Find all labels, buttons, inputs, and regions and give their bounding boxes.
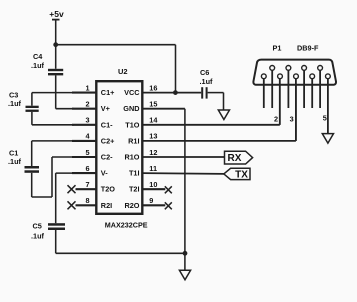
svg-text:2: 2 <box>86 100 90 109</box>
svg-text:VCC: VCC <box>124 88 140 97</box>
svg-text:V+: V+ <box>101 104 110 113</box>
junction dot C (ground rail) <box>183 251 188 256</box>
capacitor C5 <box>31 222 65 254</box>
svg-text:6: 6 <box>86 164 90 173</box>
wire pin 4 to C1 <box>32 140 74 142</box>
svg-text:C1+: C1+ <box>101 88 115 97</box>
pin 5 stub <box>72 156 97 158</box>
svg-text:15: 15 <box>149 100 157 109</box>
svg-text:+5v: +5v <box>49 9 64 19</box>
svg-text:.1uf: .1uf <box>8 99 22 108</box>
DB9 pin 6 lead <box>271 70 273 108</box>
svg-text:7: 7 <box>86 180 90 189</box>
no-connect X pin 8 <box>68 201 76 209</box>
no-connect X pin 10 <box>165 186 172 193</box>
svg-text:RX: RX <box>228 153 242 164</box>
svg-text:C6: C6 <box>200 68 209 77</box>
junction dot A (+5v rail) <box>53 42 58 47</box>
power +5v <box>49 9 64 45</box>
capacitor C6 <box>200 68 224 99</box>
tag RX <box>225 151 253 164</box>
wire C3 to pin 3 <box>32 124 74 126</box>
svg-text:R2O: R2O <box>124 201 139 210</box>
DB9 pin 5 lead to ground <box>327 79 329 134</box>
svg-text:13: 13 <box>149 132 157 141</box>
svg-text:P1: P1 <box>273 44 282 53</box>
svg-text:2: 2 <box>274 114 278 123</box>
wire C6 to ground <box>223 93 225 110</box>
svg-text:14: 14 <box>149 116 158 125</box>
pin 16 wire to C6 <box>142 92 201 94</box>
svg-text:5: 5 <box>86 148 90 157</box>
svg-text:TX: TX <box>235 169 248 180</box>
svg-text:12: 12 <box>149 148 157 157</box>
svg-text:MAX232CPE: MAX232CPE <box>105 221 148 230</box>
pin 12 wire to RX <box>142 156 224 158</box>
pin 4 stub <box>72 140 97 142</box>
connector P1 DB9-F body <box>253 44 336 85</box>
svg-text:C2-: C2- <box>101 153 113 162</box>
pin 10 stub <box>142 188 165 190</box>
svg-text:DB9-F: DB9-F <box>297 44 319 53</box>
DB9 pin 2 lead top <box>279 79 281 125</box>
svg-text:V-: V- <box>101 169 108 178</box>
svg-text:T1I: T1I <box>129 169 140 178</box>
pin 8 stub <box>76 204 97 206</box>
svg-text:GND: GND <box>123 104 139 113</box>
pin 11 wire to TX <box>142 172 224 175</box>
DB9 pin 9 lead <box>319 70 321 108</box>
svg-text:11: 11 <box>149 164 157 173</box>
pin 9 stub <box>142 204 165 206</box>
svg-text:C4: C4 <box>33 52 43 61</box>
no-connect X pin 9 <box>165 202 172 209</box>
svg-text:C2+: C2+ <box>101 136 115 145</box>
DB9 pin 3 lead top <box>295 79 297 141</box>
ground (DB9 pin 5) <box>322 134 333 144</box>
pin 6 stub <box>72 172 97 174</box>
ground (bottom rail) <box>179 270 190 280</box>
wire pin 6 to C5 <box>56 173 74 223</box>
no-connect X pin 7 <box>68 185 76 193</box>
svg-text:16: 16 <box>149 83 157 92</box>
svg-text:3: 3 <box>86 116 90 125</box>
ground (C6) <box>218 110 229 120</box>
svg-text:10: 10 <box>149 180 157 189</box>
svg-text:U2: U2 <box>118 67 128 76</box>
wire +5v rail to VCC <box>56 45 176 93</box>
capacitor C4 <box>31 45 63 109</box>
wire C1 to pin 5 <box>32 157 74 197</box>
svg-text:R2I: R2I <box>101 201 112 210</box>
IC U2 MAX232CPE body <box>96 67 147 230</box>
DB9 pin 7 lead <box>287 70 289 108</box>
pin 13 wire to DB9 pin 3 <box>142 79 296 141</box>
DB9 pin 8 lead <box>303 70 305 108</box>
wire C5 to ground rail <box>56 252 185 254</box>
wire C4 to pin 2 <box>56 108 74 110</box>
svg-text:R1I: R1I <box>128 136 139 145</box>
DB9 pin 1 lead <box>263 79 265 108</box>
svg-text:C1-: C1- <box>101 120 113 129</box>
DB9 pin 4 lead <box>311 79 313 108</box>
pin 1 stub <box>72 92 97 94</box>
svg-text:T2I: T2I <box>129 185 140 194</box>
svg-text:.1uf: .1uf <box>31 61 45 70</box>
svg-text:.1uf: .1uf <box>8 157 22 166</box>
svg-text:.1uf: .1uf <box>31 232 45 241</box>
svg-text:R1O: R1O <box>124 153 139 162</box>
svg-text:C5: C5 <box>33 222 42 231</box>
pin 3 stub <box>72 124 97 126</box>
capacitor C3 <box>8 91 39 125</box>
tag TX <box>224 168 250 180</box>
svg-text:1: 1 <box>86 83 90 92</box>
wire pin 1 to C3 <box>32 92 74 94</box>
svg-text:5: 5 <box>323 114 327 123</box>
svg-text:.1uf: .1uf <box>200 77 214 86</box>
pin 14 wire to DB9 pin 2 <box>142 79 279 125</box>
svg-text:T1O: T1O <box>125 120 140 129</box>
connector P1 pin circles bottom row (1-5) <box>261 74 330 79</box>
connector P1 pin circles top row (6-9) <box>270 66 323 71</box>
pin 7 stub <box>76 188 97 190</box>
svg-text:3: 3 <box>290 114 294 123</box>
svg-text:8: 8 <box>86 196 90 205</box>
IC U2 left pin names <box>101 88 116 210</box>
IC U2 right pin names <box>123 88 140 210</box>
pin 15 wire (GND rail) <box>142 109 185 271</box>
svg-text:9: 9 <box>149 196 153 205</box>
pin 2 stub <box>72 108 97 110</box>
junction dot B (VCC pin 16) <box>173 90 178 95</box>
capacitor C1 <box>8 141 39 197</box>
svg-text:T2O: T2O <box>101 185 116 194</box>
